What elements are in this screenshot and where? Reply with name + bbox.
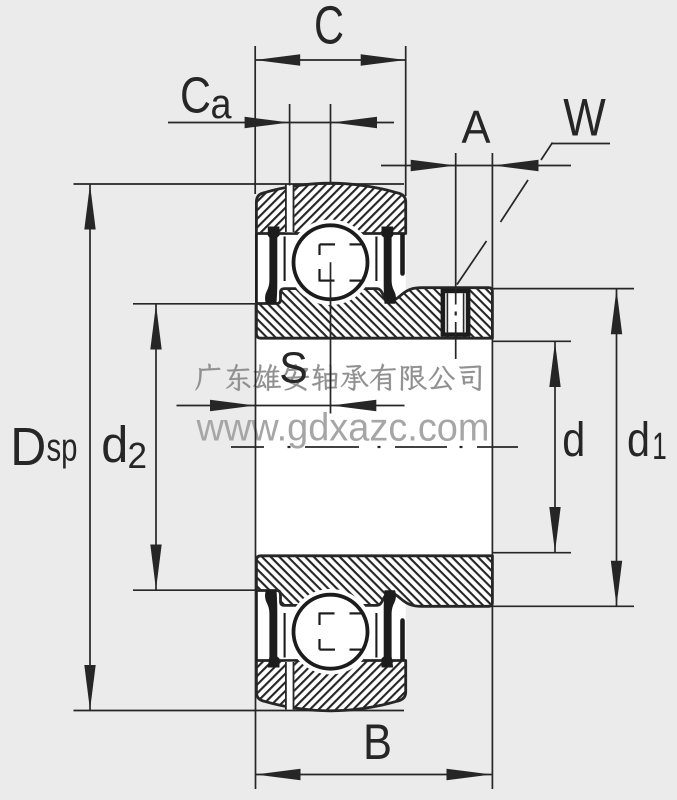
outer ring seal lip bar right (bottom) — [400, 618, 405, 660]
outer ring seal lip bar right (top) — [400, 234, 405, 276]
shaft bore area — [256, 338, 493, 556]
dimension C — [254, 46, 256, 194]
ball center line (top) — [330, 262, 332, 413]
bearing internal cavity (top) — [256, 230, 405, 310]
svg-text:2: 2 — [128, 435, 148, 476]
ball dashed center mark (bottom) — [320, 648, 336, 650]
watermark line 1: company name — [195, 364, 481, 391]
dimension S — [255, 304, 257, 790]
outer ring (bottom section) — [256, 661, 405, 711]
leader W — [552, 143, 610, 145]
dimension A — [491, 153, 493, 789]
screw axis center line — [455, 153, 457, 305]
svg-text:A: A — [462, 101, 491, 153]
seal right (bottom) — [382, 590, 396, 667]
dimension d2 — [133, 303, 256, 305]
svg-text:C: C — [314, 0, 344, 56]
ball dashed center mark (top) — [320, 243, 336, 245]
bearing internal cavity (bottom) — [256, 584, 405, 664]
svg-text:d: d — [562, 414, 585, 467]
dimension Ca — [289, 104, 291, 186]
seal slinger left (bottom) — [255, 592, 258, 661]
svg-text:www.gdxazc.com: www.gdxazc.com — [196, 407, 490, 450]
svg-text:W: W — [563, 89, 606, 148]
set screw (grub screw) — [441, 289, 471, 337]
ball (bottom) — [294, 595, 368, 669]
dimension d1 — [492, 288, 634, 290]
raceway gap (top) — [288, 219, 374, 305]
lubrication hole in outer ring (top) — [285, 183, 294, 233]
svg-text:d: d — [627, 414, 650, 467]
seal left (bottom) — [265, 590, 279, 667]
seal left (top) — [265, 227, 279, 304]
svg-text:C: C — [180, 67, 211, 124]
raceway gap (bottom) — [288, 589, 374, 675]
svg-text:B: B — [363, 714, 392, 770]
svg-text:sp: sp — [47, 427, 78, 470]
lubrication hole in outer ring (bottom) — [285, 662, 294, 712]
svg-text:d: d — [101, 416, 128, 473]
inner ring with mounting collar (top section) — [256, 288, 492, 339]
svg-text:S: S — [279, 344, 308, 393]
seal slinger left (top) — [255, 234, 258, 303]
outer ring (top section) — [256, 183, 405, 233]
svg-text:a: a — [211, 80, 233, 127]
svg-text:D: D — [10, 417, 46, 477]
dimension Dsp — [74, 183, 405, 185]
dimension B — [256, 774, 492, 776]
seal right (top) — [382, 227, 396, 304]
inner ring with mounting collar (bottom section) — [256, 556, 492, 607]
svg-text:1: 1 — [652, 426, 667, 468]
ball (top) — [294, 225, 368, 299]
dimension d — [492, 340, 571, 342]
center axis line — [231, 446, 264, 448]
